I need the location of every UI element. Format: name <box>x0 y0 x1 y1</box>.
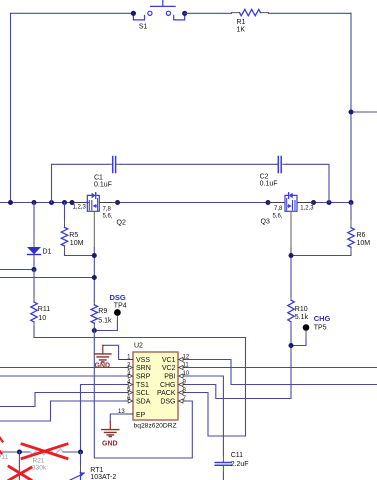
DNP cross fragment bottom left <box>9 467 31 480</box>
svg-text:PACK: PACK <box>157 390 176 397</box>
svg-text:7,8: 7,8 <box>274 206 283 212</box>
wire main row right segment <box>314 202 352 204</box>
wire Q3 gate down to R10 <box>290 248 292 297</box>
wire D1 node down to R11 <box>33 270 35 298</box>
svg-text:GND: GND <box>102 440 118 447</box>
wire main row left segment <box>0 202 72 204</box>
svg-text:7,8: 7,8 <box>103 207 112 213</box>
DNP cross fragment left edge <box>0 437 3 442</box>
svg-text:VC2: VC2 <box>162 365 176 372</box>
wire right rail vertical <box>350 13 352 202</box>
pin 12 VC1 stub <box>178 354 190 361</box>
svg-text:DSG: DSG <box>110 293 126 302</box>
wire D1 to node y=269.5 <box>33 259 35 270</box>
wire stub to right edge at y=112 <box>351 111 377 113</box>
svg-text:1,2,3: 1,2,3 <box>73 204 87 210</box>
svg-text:C2: C2 <box>260 174 269 181</box>
svg-text:R1: R1 <box>237 19 246 26</box>
svg-text:SCL: SCL <box>136 390 150 397</box>
svg-text:10M: 10M <box>70 240 84 247</box>
wire Q3 gate stub <box>290 211 292 248</box>
wire R6 branch from row <box>350 203 352 220</box>
pin 6 SDA stub <box>126 396 134 403</box>
pin 4 TS1 stub <box>126 379 134 386</box>
svg-text:TP5: TP5 <box>314 325 327 332</box>
wire R6 bottom to Q3 gate node <box>291 252 351 256</box>
svg-text:2.2uF: 2.2uF <box>231 461 249 468</box>
op-amp U2 bq28z620DRZ body <box>133 342 178 429</box>
svg-text:PBI: PBI <box>164 374 175 381</box>
pin 11 VC2 stub <box>178 362 189 369</box>
pin 7 DSG stub <box>178 396 187 403</box>
svg-text:GND: GND <box>95 362 111 369</box>
wire PBI pin 10 down to C11 <box>186 376 223 455</box>
wire C1 left branch vertical <box>51 164 53 202</box>
junction D1 node <box>32 267 37 272</box>
junction gate node y=277.5 <box>92 275 97 280</box>
svg-text:D1: D1 <box>43 248 52 255</box>
svg-text:TP4: TP4 <box>114 303 127 310</box>
svg-text:RT1: RT1 <box>90 467 103 474</box>
diode D1 <box>27 240 52 259</box>
pin 13 EP stub <box>118 409 133 415</box>
svg-text:5,6,: 5,6, <box>273 214 283 220</box>
junction row at C2 branch <box>327 200 332 205</box>
wire R11 bottom corner to PACK rail <box>34 328 246 338</box>
wire SDA to left edge <box>0 401 126 421</box>
svg-text:103AT-2: 103AT-2 <box>90 474 116 480</box>
svg-text:R6: R6 <box>357 232 366 239</box>
junction row at left rail <box>8 200 13 205</box>
wire PACK rail down right side <box>186 338 246 437</box>
junction S1 right terminal <box>182 11 187 16</box>
junction row at Q3 source pin <box>311 200 316 205</box>
wire VC2 pin 11 to right edge <box>186 367 377 369</box>
junction R9 bottom TP4 node <box>92 328 97 333</box>
svg-text:P11: P11 <box>0 454 8 461</box>
wire SRN to left edge <box>0 367 126 369</box>
capacitor C1 0.1uF <box>94 157 120 189</box>
svg-text:5.1k: 5.1k <box>295 314 309 321</box>
resistor R9 5.1k <box>91 301 112 328</box>
wire R1 to right rail <box>269 12 352 14</box>
svg-text:TS1: TS1 <box>136 382 149 389</box>
pin 3 SRP stub <box>126 371 134 378</box>
svg-text:CHG: CHG <box>160 382 176 389</box>
wire VC1 pin 12 routing to right edge <box>186 360 377 385</box>
svg-text:C11: C11 <box>231 452 243 459</box>
svg-text:R9: R9 <box>98 308 107 315</box>
junction row at Q2 source pin <box>70 200 75 205</box>
svg-text:1K: 1K <box>237 27 246 34</box>
pin 10 PBI stub <box>178 371 190 378</box>
svg-text:5.1k: 5.1k <box>98 317 112 324</box>
junction R21 row left <box>17 450 22 455</box>
wire off-page stub left at y=277.5 <box>0 277 94 279</box>
svg-text:SDA: SDA <box>136 399 151 406</box>
wire SCL to left edge <box>0 393 126 407</box>
svg-text:SRP: SRP <box>136 374 151 381</box>
thermistor RT1 103AT-2 <box>70 452 116 480</box>
junction TS1 RT1 node <box>78 450 83 455</box>
svg-text:0.1uF: 0.1uF <box>94 181 112 188</box>
wire R21 row to left edge <box>0 451 30 453</box>
resistor R1 1K <box>232 9 269 33</box>
junction R5 gate node <box>92 253 97 258</box>
switch S1 <box>133 0 184 31</box>
pin 5 SCL stub <box>126 387 134 394</box>
DNP cross over R21 <box>22 444 67 459</box>
ground GND at VSS <box>95 345 112 369</box>
junction TP5 node <box>289 343 294 348</box>
wire R10 bottom to CHG node <box>186 326 291 399</box>
wire main row middle segment <box>118 202 269 204</box>
svg-text:S1: S1 <box>139 24 148 31</box>
svg-text:10: 10 <box>38 315 46 322</box>
pin 8 PACK stub <box>178 387 187 394</box>
wire S1 to R1 <box>185 12 232 14</box>
svg-text:Q3: Q3 <box>261 219 270 226</box>
svg-text:1,2,3: 1,2,3 <box>300 206 314 212</box>
svg-text:R11: R11 <box>38 306 50 313</box>
pin 9 CHG stub <box>178 379 187 386</box>
pin 1 VSS stub <box>119 354 133 360</box>
svg-text:R5: R5 <box>69 232 78 239</box>
resistor R10 5.1k <box>288 297 309 326</box>
svg-text:EP: EP <box>136 412 146 419</box>
resistor R11 10 <box>31 297 50 328</box>
junction row at R5 branch <box>62 200 67 205</box>
svg-text:VC1: VC1 <box>162 357 176 364</box>
svg-text:10M: 10M <box>357 240 371 247</box>
junction S1 left terminal <box>131 11 136 16</box>
wire SRP to left edge <box>0 375 126 377</box>
wire R5 branch from row <box>64 203 66 220</box>
junction R6 gate node <box>289 253 294 258</box>
svg-text:330k: 330k <box>32 464 47 471</box>
testpoint TP4 DSG <box>94 293 126 331</box>
junction row at right rail <box>349 200 354 205</box>
capacitor C11 2.2uF <box>215 452 248 473</box>
wire Q2 gate down to R9 <box>93 248 95 301</box>
svg-text:SRN: SRN <box>136 365 151 372</box>
resistor R6 10M <box>348 220 370 253</box>
junction row at Q3 drain pin <box>266 200 271 205</box>
capacitor C2 0.1uF <box>260 157 287 188</box>
wire VSS pin to GND <box>103 345 119 359</box>
svg-text:DSG: DSG <box>160 399 175 406</box>
DNP red tick on wire at left edge <box>0 450 2 454</box>
svg-text:bq28z620DRZ: bq28z620DRZ <box>134 423 177 430</box>
wire Q2 gate stub <box>93 211 95 248</box>
wire TS1 to thermistor column <box>81 385 126 453</box>
resistor R21 330k DNP <box>30 449 81 472</box>
svg-text:R21: R21 <box>33 457 45 464</box>
wire off-page stub left at y=269.5 <box>0 269 34 271</box>
transistor Q3 <box>261 193 315 226</box>
svg-text:VSS: VSS <box>136 357 150 364</box>
svg-text:5,6,: 5,6, <box>103 214 113 220</box>
junction right rail y=112 <box>349 110 354 115</box>
wire C2 right lead to corner <box>287 164 330 202</box>
ground GND at EP <box>102 422 119 448</box>
junction row at D1 branch <box>32 200 37 205</box>
wire EP pin to GND <box>110 414 125 422</box>
pin 2 SRN stub <box>126 362 134 369</box>
svg-text:0.1uF: 0.1uF <box>260 181 278 188</box>
wire left rail vertical <box>10 13 12 202</box>
wire D1 branch down from row <box>33 203 35 241</box>
wire top net from left rail to S1 <box>11 12 134 14</box>
wire C11 bottom to page edge <box>222 473 224 480</box>
junction row at C1 branch <box>49 200 54 205</box>
svg-text:R10: R10 <box>295 306 308 313</box>
svg-text:U2: U2 <box>134 342 143 349</box>
resistor R5 10M <box>61 220 83 253</box>
wire DSG net down left of U2 <box>94 328 192 459</box>
transistor Q2 <box>73 193 126 227</box>
testpoint TP5 CHG <box>291 314 331 346</box>
wire R5 bottom to Q2 gate node <box>65 252 95 256</box>
junction row at Q2 drain pin <box>115 200 120 205</box>
wire C1 left lead <box>52 163 109 165</box>
wire below left junction to page edge <box>18 452 20 480</box>
svg-text:CHG: CHG <box>314 314 331 323</box>
svg-text:Q2: Q2 <box>117 220 126 227</box>
wire C1 to C2 mid net <box>120 163 277 165</box>
